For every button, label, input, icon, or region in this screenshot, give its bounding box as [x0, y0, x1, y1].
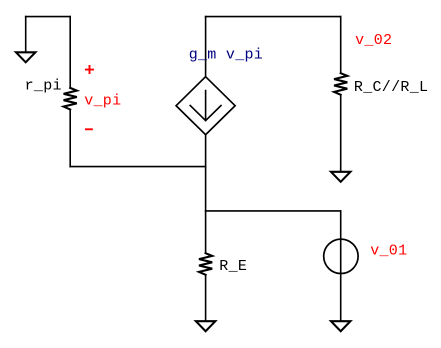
wire r_pi bottom lead — [69, 110, 71, 167]
resistor R_E — [199, 253, 212, 275]
svg-text:v_01: v_01 — [370, 242, 407, 259]
wire top-right horizontal — [206, 16, 341, 18]
wire right lower vertical — [340, 211, 342, 321]
controlled source G1 diamond — [176, 77, 235, 135]
wire r_pi top lead — [69, 17, 71, 88]
wire mid horizontal right — [206, 210, 341, 212]
wire center top — [205, 17, 207, 77]
voltage source v_01 circle — [324, 239, 358, 273]
label + (red) — [86, 66, 93, 73]
label - (red) — [86, 128, 92, 130]
ground mid-right — [331, 172, 350, 182]
svg-text:R_C//R_L: R_C//R_L — [354, 79, 428, 96]
svg-text:g_m v_pi: g_m v_pi — [189, 47, 263, 64]
ground below R_E — [196, 321, 215, 331]
wire right top lead — [340, 17, 342, 74]
ground below v_01 — [331, 321, 350, 331]
arrow inside G1 — [190, 91, 221, 121]
svg-text:v_pi: v_pi — [84, 92, 121, 109]
resistor r_pi — [64, 88, 77, 110]
wire R_E bottom lead — [205, 275, 207, 321]
resistor R_C//R_L — [334, 73, 347, 95]
svg-text:r_pi: r_pi — [25, 77, 62, 94]
svg-text:R_E: R_E — [219, 258, 247, 275]
wire right below resistor — [340, 95, 342, 172]
ground top-left — [16, 52, 35, 62]
wire center below diamond — [205, 135, 207, 254]
wire node horizontal left — [70, 166, 205, 168]
wire top-left horizontal — [26, 16, 70, 18]
svg-text:v_02: v_02 — [355, 32, 392, 49]
wire left ground stem — [25, 17, 27, 53]
